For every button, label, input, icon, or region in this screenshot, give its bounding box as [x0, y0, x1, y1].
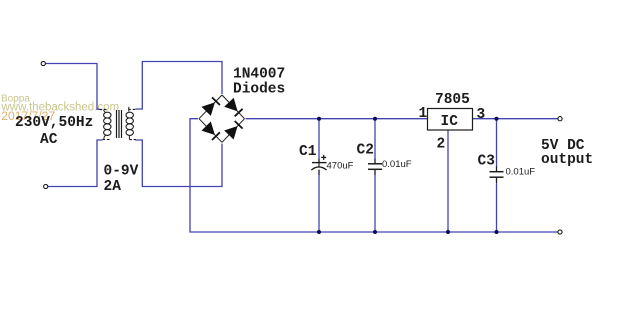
junction dot pin3/C3 top: [495, 117, 499, 121]
svg-text:0.01uF: 0.01uF: [382, 159, 412, 170]
svg-text:7805: 7805: [435, 92, 470, 108]
capacitor C1 electrolytic plates: [311, 155, 326, 170]
junction dot C2 bottom: [373, 230, 377, 234]
wire: bottom-left terminal to transformer primary bottom: [48, 140, 103, 187]
terminal: AC input top: [41, 61, 45, 65]
capacitor C1 lead stubs: [318, 159, 320, 175]
svg-text:IC: IC: [441, 114, 459, 130]
wire: IC pin2 to ground rail: [447, 130, 449, 232]
junction dot C3 bottom: [495, 230, 499, 234]
svg-text:230V,50Hz: 230V,50Hz: [15, 115, 93, 131]
svg-text:C1: C1: [299, 144, 317, 160]
svg-text:3: 3: [477, 107, 486, 123]
svg-text:1: 1: [419, 106, 428, 122]
terminal: DC output minus: [558, 230, 562, 234]
bridge rectifier diamond edges: [199, 95, 245, 142]
svg-text:2A: 2A: [104, 179, 122, 195]
wire: transformer secondary bottom to bridge bottom vertex: [136, 140, 223, 187]
svg-text:2: 2: [437, 137, 446, 153]
svg-text:output: output: [541, 152, 593, 168]
svg-text:Diodes: Diodes: [233, 81, 285, 97]
capacitor C2 lead stubs: [374, 159, 376, 175]
wire: bridge left vertex to ground rail (DC minus): [190, 119, 558, 232]
C1 plus sign: [321, 156, 326, 158]
svg-text:470uF: 470uF: [327, 161, 354, 172]
transformer coil end connectors: [104, 110, 106, 113]
junction dot pin2 bottom: [446, 230, 450, 234]
junction dot C1 bottom: [317, 230, 321, 234]
svg-text:C3: C3: [478, 154, 495, 170]
transformer secondary coil: [126, 112, 133, 135]
junction dot C2 top: [373, 117, 377, 121]
wire: IC pin3 to output terminal: [473, 118, 559, 120]
transformer lead dashes bottom-right: [129, 139, 136, 141]
wire: C2 leads: [374, 119, 376, 163]
wire: top-left terminal to corner: [46, 64, 100, 110]
diode D2 top-right: [224, 98, 242, 117]
wire: C1 leads: [318, 119, 320, 163]
terminal: DC output plus: [558, 117, 562, 121]
IC U1 regulator box: [428, 109, 473, 131]
transformer core: [116, 110, 118, 138]
transformer primary coil: [104, 112, 111, 135]
capacitor C2 plates: [368, 164, 382, 170]
transformer lead dashes bottom-left: [103, 139, 110, 141]
wire: transformer secondary top to bridge top vertex: [136, 62, 223, 110]
junction dot C1 top: [317, 117, 321, 121]
transformer lead dashes top-right: [128, 108, 136, 110]
capacitor C3 plates: [490, 172, 504, 178]
diode D3 bottom-left: [202, 122, 220, 141]
transformer T1: [100, 107, 137, 140]
diode D4 bottom-right: [224, 121, 242, 140]
terminal: AC input bottom: [44, 184, 48, 188]
svg-text:0.01uF: 0.01uF: [506, 166, 536, 177]
capacitor C3 lead stubs: [496, 166, 498, 182]
svg-text:C2: C2: [357, 143, 374, 159]
diode D1 top-left: [202, 97, 220, 116]
svg-text:0-9V: 0-9V: [104, 163, 139, 179]
wire: C3 leads: [496, 119, 498, 171]
svg-text:1N4007: 1N4007: [233, 67, 285, 83]
wire: DC plus rail from bridge right vertex to IC pin1: [246, 118, 428, 120]
transformer lead dashes top-left: [100, 108, 108, 110]
svg-text:AC: AC: [40, 132, 58, 148]
